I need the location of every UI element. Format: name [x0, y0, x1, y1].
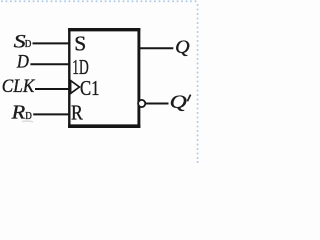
- wire D input: [30, 63, 69, 65]
- inversion bubble on Q': [138, 100, 145, 107]
- wire CLK input: [35, 88, 69, 90]
- scan artifact: blue dotted page edge top: [1, 0, 197, 2]
- svg-text:CLK: CLK: [2, 77, 36, 97]
- svg-text:C1: C1: [80, 76, 100, 100]
- svg-text:R: R: [71, 100, 83, 124]
- scan artifact: blue dotted page edge right: [197, 4, 199, 163]
- svg-text:D: D: [25, 111, 32, 122]
- wire R_D input: [33, 113, 69, 115]
- dynamic-input triangle C1: [71, 81, 80, 94]
- wire Q output: [139, 47, 174, 49]
- svg-text:R: R: [11, 102, 26, 124]
- svg-text:Q: Q: [175, 38, 190, 58]
- svg-text:S: S: [14, 32, 26, 52]
- wire S_D input: [33, 42, 70, 44]
- faint scan smudge: [22, 120, 33, 123]
- svg-text:S: S: [74, 31, 86, 55]
- svg-text:D: D: [16, 52, 29, 72]
- svg-text:D: D: [25, 39, 32, 50]
- flip-flop body U1: [68, 28, 140, 128]
- wire Q' output: [146, 103, 169, 105]
- svg-text:Q: Q: [170, 93, 188, 113]
